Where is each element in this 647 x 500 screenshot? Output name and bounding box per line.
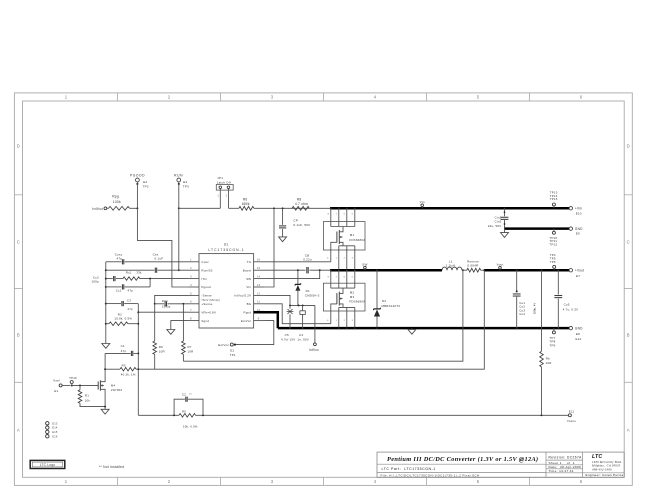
wire R6 to Vin node (254, 207, 330, 209)
wire IntVcc pin12 elbow (264, 295, 290, 305)
capacitor DC2 (155, 299, 189, 308)
wire IntVcc node (290, 304, 315, 306)
svg-text:0.1uF, 50V: 0.1uF, 50V (293, 223, 311, 227)
svg-text:IntVcc: IntVcc (309, 348, 319, 352)
svg-text:E11: E11 (569, 409, 575, 413)
capacitor C3 (106, 299, 139, 311)
engineer row (586, 473, 624, 477)
svg-text:2N7002: 2N7002 (111, 388, 123, 392)
svg-text:SW: SW (246, 277, 251, 281)
svg-text:IntVcc: IntVcc (92, 207, 103, 211)
node Vin label (420, 200, 425, 209)
wire pin8 sgnd (171, 321, 189, 330)
svg-text:Cin2: Cin2 (494, 220, 501, 224)
node Rsense-Vout junction (481, 269, 486, 271)
M2 drain pins (328, 270, 355, 283)
LTC part number row (382, 467, 436, 471)
svg-text:C5: C5 (285, 333, 289, 337)
svg-text:4: 4 (374, 95, 377, 100)
resistor R3 (120, 364, 136, 377)
svg-text:B: B (627, 333, 630, 338)
resistor R7 (182, 304, 194, 361)
svg-text:4: 4 (374, 479, 377, 484)
svg-text:Co5: Co5 (564, 303, 570, 307)
svg-text:13: 13 (257, 283, 261, 287)
svg-text:47p: 47p (128, 288, 134, 292)
IntVcc terminal (92, 207, 108, 211)
svg-text:180u, 4V: 180u, 4V (533, 303, 537, 315)
wire SW rail (thick) (330, 269, 442, 272)
svg-text:5: 5 (477, 95, 480, 100)
node M4 source junction (104, 406, 106, 408)
wire Rpg to PGOOD node (130, 207, 138, 209)
svg-text:Co4: Co4 (519, 312, 525, 316)
capacitor Co5 (554, 270, 578, 328)
svg-text:R3: R3 (122, 364, 126, 368)
svg-text:FDS6680A: FDS6680A (349, 300, 365, 304)
date row (549, 465, 582, 469)
svg-text:TP3: TP3 (183, 184, 189, 188)
ground below pin8 (167, 330, 175, 335)
M2 source pins (336, 311, 355, 328)
frame grid reference labels (17, 95, 630, 484)
terminal +Vin E10 (569, 207, 582, 216)
svg-text:ITH: ITH (201, 277, 206, 281)
svg-text:Pgnd: Pgnd (244, 310, 252, 314)
svg-text:10: 10 (257, 308, 261, 312)
svg-text:Vin: Vin (420, 200, 425, 204)
svg-text:10R: 10R (159, 350, 165, 354)
svg-text:11: 11 (257, 300, 260, 304)
test point E3/TP3 RUN (174, 174, 189, 209)
svg-text:C: C (17, 240, 20, 245)
node D1 boost junction (297, 269, 299, 271)
test point E4/TP2 PGOOD (130, 174, 149, 209)
svg-text:0.004R: 0.004R (467, 264, 479, 268)
svg-text:10R: 10R (546, 361, 552, 365)
ground below Cin (501, 229, 509, 238)
svg-text:E10: E10 (576, 211, 582, 215)
node sense+ junction (182, 303, 184, 305)
svg-text:408-432-1900: 408-432-1900 (592, 467, 612, 471)
node R1 top (79, 384, 81, 386)
LTC logo and address (591, 454, 622, 471)
svg-text:LTC Logo: LTC Logo (40, 463, 56, 467)
svg-text:+Sense: +Sense (201, 302, 212, 306)
svg-text:E12: E12 (576, 337, 582, 341)
transistor M2 M3 FDS6680A (323, 283, 365, 311)
svg-text:4.7 ohm: 4.7 ohm (295, 202, 308, 206)
LTC logo box (30, 460, 65, 468)
wire R3 node line (105, 368, 155, 370)
svg-text:Css: Css (153, 252, 159, 256)
node Rc1 right (149, 278, 151, 280)
svg-text:M1: M1 (350, 233, 355, 237)
svg-text:BG: BG (247, 302, 252, 306)
svg-text:FDS6680A: FDS6680A (349, 238, 365, 242)
svg-text:R1: R1 (85, 394, 89, 398)
node Vin feed junction (273, 207, 275, 209)
svg-text:12: 12 (257, 291, 261, 295)
wire pin7 VFb (138, 311, 188, 313)
nodes M1 drain junctions (330, 207, 356, 209)
svg-text:D: D (627, 144, 630, 149)
svg-text:TP12: TP12 (550, 242, 558, 246)
inductor L1 (442, 259, 462, 270)
nodes on sgnd rail (105, 269, 107, 324)
svg-text:RUN: RUN (174, 174, 183, 178)
terminal GND E9 (569, 227, 583, 236)
svg-text:D2: D2 (382, 299, 386, 303)
svg-text:2: 2 (168, 479, 171, 484)
nodes on output GND bus (289, 327, 559, 329)
nodes on VFb riser (137, 311, 139, 370)
resistor R8 (292, 198, 309, 211)
note not installed (99, 465, 124, 469)
test point TP4 TP5 TP6 (550, 253, 556, 270)
svg-text:16: 16 (257, 258, 261, 262)
wire RUN to pin2 (178, 208, 180, 271)
svg-text:C: C (627, 240, 630, 245)
capacitor CB (303, 254, 312, 274)
sheet row (549, 461, 576, 465)
op-amp U1 LTC1735CGN-1 body (199, 243, 254, 328)
svg-text:C2: C2 (182, 392, 186, 396)
svg-text:E9: E9 (576, 232, 580, 236)
terminal E11 Vosns (567, 409, 576, 422)
svg-text:ExtVcc: ExtVcc (218, 343, 229, 347)
resistor R5 (179, 410, 198, 429)
capacitor Cosc (106, 252, 189, 264)
svg-text:E16: E16 (52, 434, 58, 438)
transistor M4 2N7002 (98, 369, 122, 406)
svg-text:CMDSH-3: CMDSH-3 (305, 294, 320, 298)
capacitor Cin1 Cin2 (488, 208, 509, 228)
capacitor C5 (281, 305, 295, 341)
svg-text:Latch Off: Latch Off (217, 180, 231, 184)
wire Vin feed to pin13 (264, 208, 274, 287)
svg-text:R9: R9 (159, 345, 163, 349)
svg-text:Rpg: Rpg (112, 195, 119, 199)
wire Vosns right (196, 414, 569, 416)
nodes on Vout rail (516, 269, 560, 271)
svg-text:TP1: TP1 (230, 353, 236, 357)
nodes on IntVcc line (289, 304, 304, 306)
node RUN junction (178, 207, 180, 209)
svg-text:U1: U1 (224, 243, 229, 247)
svg-text:Cosc: Cosc (201, 260, 209, 264)
node Vout label (496, 263, 503, 271)
ground below CP (279, 237, 287, 242)
wire ExtVcc pin9 to E2 (235, 321, 274, 345)
svg-text:47p: 47p (127, 307, 133, 311)
svg-text:14: 14 (257, 275, 261, 279)
svg-text:R8: R8 (297, 198, 302, 202)
svg-text:R7: R7 (188, 345, 192, 349)
wire TG to M1 gate (264, 261, 331, 263)
svg-text:C1: C1 (121, 344, 125, 348)
svg-text:33k: 33k (136, 270, 142, 274)
U1 right pin stubs (254, 258, 265, 321)
svg-text:E13: E13 (52, 421, 58, 425)
svg-text:6: 6 (580, 479, 583, 484)
resistor R9 (153, 304, 165, 369)
svg-text:CP: CP (293, 218, 298, 222)
wire pin5 sense- (155, 295, 189, 303)
test point TP10 TP11 TP12 (550, 229, 558, 247)
svg-text:Run/SS: Run/SS (201, 268, 212, 272)
svg-text:Rc1: Rc1 (126, 270, 132, 274)
svg-text:A: A (627, 428, 630, 433)
wire CB to SW node (310, 269, 331, 271)
svg-text:1.2uH: 1.2uH (446, 264, 455, 268)
capacitor Css (106, 252, 189, 272)
transistor M1 FDS6680A (323, 222, 365, 250)
wire sense- line (155, 270, 485, 369)
svg-text:E1: E1 (54, 389, 58, 393)
svg-text:22u, 50V: 22u, 50V (488, 224, 502, 228)
svg-text:6: 6 (580, 95, 583, 100)
node CP junction (282, 207, 284, 209)
node R3 left (104, 368, 106, 370)
svg-text:E7: E7 (576, 274, 580, 278)
svg-text:4.7uf 10V: 4.7uf 10V (281, 338, 295, 342)
ground below M4 (101, 407, 109, 415)
resistor R2 (106, 312, 139, 325)
svg-text:+Vin: +Vin (575, 207, 582, 211)
svg-text:TP15: TP15 (550, 197, 558, 201)
svg-text:100k: 100k (113, 200, 121, 204)
svg-text:Pentium III DC/DC Converter (1: Pentium III DC/DC Converter (1.3V or 1.5… (387, 456, 538, 463)
spare terminals E13-E16 (46, 421, 58, 438)
wire Vsel to M4 gate (72, 384, 99, 386)
svg-text:0.22u: 0.22u (303, 258, 312, 262)
svg-text:D: D (17, 144, 20, 149)
svg-text:Boost: Boost (243, 268, 252, 272)
M2 gate pin (327, 304, 337, 324)
svg-text:2200p: 2200p (162, 304, 171, 308)
svg-text:E15: E15 (52, 430, 58, 434)
U1 right pin names (234, 260, 252, 323)
svg-text:DC2: DC2 (162, 299, 168, 303)
test point TP13 TP14 TP15 (550, 191, 558, 209)
wire output GND bus (thick) (278, 327, 569, 330)
node L1-Rsense junction (462, 269, 467, 271)
svg-text:SW: SW (362, 262, 367, 266)
wire Boost pin to CB (264, 269, 305, 271)
nodes on SW rail (330, 269, 378, 271)
file row (381, 473, 480, 477)
svg-text:** Not installed: ** Not installed (99, 465, 124, 469)
U1 left pin stubs (189, 258, 200, 321)
resistor R6 (239, 198, 254, 211)
capacitor Cc1 (106, 279, 150, 293)
diode D2 MBRS140T3 (374, 270, 401, 328)
svg-text:1: 1 (65, 95, 68, 100)
title text (387, 456, 538, 463)
ground on GND bus (408, 328, 416, 334)
svg-text:4.7u, 6.3V: 4.7u, 6.3V (563, 307, 578, 311)
wire input GND bus (thick) (505, 227, 570, 230)
wire Pgnd (thick) (254, 312, 278, 328)
svg-text:Pgood: Pgood (201, 285, 211, 289)
net label IntVcc lower (309, 305, 319, 352)
svg-text:100p: 100p (91, 280, 99, 284)
svg-text:C4: C4 (299, 333, 303, 337)
svg-text:10R: 10R (188, 350, 194, 354)
svg-text:C3: C3 (127, 299, 131, 303)
node Cin junction (504, 207, 506, 209)
svg-text:MBRS140T3: MBRS140T3 (382, 304, 401, 308)
svg-text:1n, 50V: 1n, 50V (297, 338, 309, 342)
svg-text:Vsel: Vsel (53, 379, 60, 383)
svg-text:Vosns: Vosns (567, 419, 576, 423)
wire sense+ line (183, 270, 463, 361)
svg-text:Vin: Vin (246, 285, 251, 289)
resistor Rc1 (116, 270, 189, 280)
svg-text:47p: 47p (116, 257, 122, 261)
wire SW pin to SW node (264, 270, 320, 278)
svg-text:Cc1: Cc1 (116, 288, 122, 292)
svg-text:LTC1735CGN-1: LTC1735CGN-1 (208, 248, 244, 252)
svg-text:Revision: DC267A: Revision: DC267A (549, 455, 583, 459)
svg-text:R5: R5 (182, 410, 186, 414)
svg-text:GND: GND (575, 227, 583, 231)
svg-text:Time: 14:47:41: Time: 14:47:41 (549, 469, 574, 473)
svg-text:LTC Part: LTC1735CGN-1: LTC Part: LTC1735CGN-1 (382, 467, 436, 471)
test point TP16 (69, 376, 77, 386)
M1 drain pins (328, 208, 355, 221)
jumper JP1 Latch Off (216, 176, 233, 208)
svg-text:Engineer: Goran Perica: Engineer: Goran Perica (586, 473, 624, 477)
capacitor C4 (297, 305, 309, 341)
title block box (377, 452, 624, 477)
node SW pin junction (319, 269, 321, 271)
U1 left pin names (201, 260, 220, 323)
svg-text:1: 1 (65, 479, 68, 484)
svg-text:PGOOD: PGOOD (130, 174, 145, 178)
svg-text:TP6: TP6 (550, 260, 556, 264)
svg-text:IntVcc/5.2V: IntVcc/5.2V (234, 294, 251, 298)
svg-text:B: B (17, 333, 20, 338)
svg-text:File: H:\_LTC\DC\LTC1735CGN-1\: File: H:\_LTC\DC\LTC1735CGN-1\DC1(735-1)… (381, 473, 480, 477)
capacitor C1 (105, 344, 138, 369)
node Rb bottom (541, 414, 543, 416)
svg-text:TP16: TP16 (69, 376, 77, 380)
svg-text:15.8k, 0.5%: 15.8k, 0.5% (114, 317, 132, 321)
node PGOOD junction (136, 207, 138, 209)
terminal GND E8 E12 (569, 326, 583, 341)
M1 source pins (336, 250, 355, 270)
wire PGOOD to pin4 (137, 208, 188, 287)
capacitor Co1-Co4 (513, 270, 537, 328)
svg-text:E14: E14 (52, 426, 58, 430)
svg-text:M2: M2 (350, 291, 355, 295)
time row (549, 469, 574, 473)
svg-text:680k: 680k (242, 202, 250, 206)
ground below sgnd rail (102, 344, 110, 349)
wire Vosns left (138, 414, 179, 416)
wire Vin bus (thick) (330, 207, 569, 210)
test point TP7 TP8 TP9 (550, 328, 556, 347)
revision row (549, 455, 583, 459)
svg-text:5: 5 (477, 479, 480, 484)
svg-text:40.2k, 1%: 40.2k, 1% (121, 372, 136, 376)
capacitor C2 (174, 392, 203, 415)
svg-text:15: 15 (257, 266, 261, 270)
svg-text:ExtVcc: ExtVcc (241, 319, 252, 323)
svg-text:47p: 47p (121, 349, 127, 353)
svg-text:D1: D1 (306, 289, 310, 293)
node sense- junction (154, 303, 156, 305)
resistor Rb (540, 270, 552, 415)
M1 gate pin (327, 242, 337, 261)
svg-text:A: A (17, 428, 20, 433)
svg-text:M4: M4 (111, 383, 116, 387)
nodes C2 loop (173, 414, 204, 416)
svg-text:3: 3 (271, 479, 274, 484)
svg-text:Rb: Rb (546, 357, 550, 361)
svg-text:+Vout: +Vout (575, 269, 584, 273)
svg-text:75mV (65mVp): 75mV (65mVp) (201, 299, 220, 302)
wire RUN to JP1 (179, 207, 221, 209)
wire JP1 to R6 (229, 207, 239, 209)
svg-text:10k: 10k (85, 398, 91, 402)
svg-text:-Sense: -Sense (201, 294, 212, 298)
svg-text:TG: TG (247, 260, 252, 264)
svg-text:TP9: TP9 (550, 343, 556, 347)
capacitor CP (279, 208, 311, 237)
wire VFb riser (137, 304, 139, 416)
resistor Rsense (467, 259, 481, 272)
wire +Vout rail (thick) (484, 269, 569, 272)
svg-text:R6: R6 (243, 198, 248, 202)
svg-text:3: 3 (271, 95, 274, 100)
svg-text:GND: GND (575, 327, 583, 331)
wire BG to M2 gate (264, 304, 331, 324)
node SW label (362, 262, 367, 270)
svg-text:TP2: TP2 (143, 184, 149, 188)
svg-text:VFb=0.8V: VFb=0.8V (201, 310, 216, 314)
svg-text:2: 2 (168, 95, 171, 100)
svg-text:0.1uF: 0.1uF (155, 257, 164, 261)
diode D1 CMDSH-3 (295, 270, 320, 305)
svg-text:E8: E8 (576, 332, 580, 336)
terminal E2 TP1 ExtVcc (218, 343, 236, 357)
border frame (14, 93, 632, 486)
svg-text:Sgnd: Sgnd (201, 319, 209, 323)
terminal +Vout E7 (569, 269, 584, 279)
terminal Vsel E1 (53, 379, 70, 393)
wire sgnd rail left (105, 262, 107, 344)
svg-text:M3: M3 (350, 295, 355, 299)
resistor Rpg (109, 195, 130, 211)
resistor R1 (78, 385, 105, 406)
svg-text:10k, 0.5%: 10k, 0.5% (183, 424, 198, 428)
capacitor Cc2 (91, 275, 115, 283)
